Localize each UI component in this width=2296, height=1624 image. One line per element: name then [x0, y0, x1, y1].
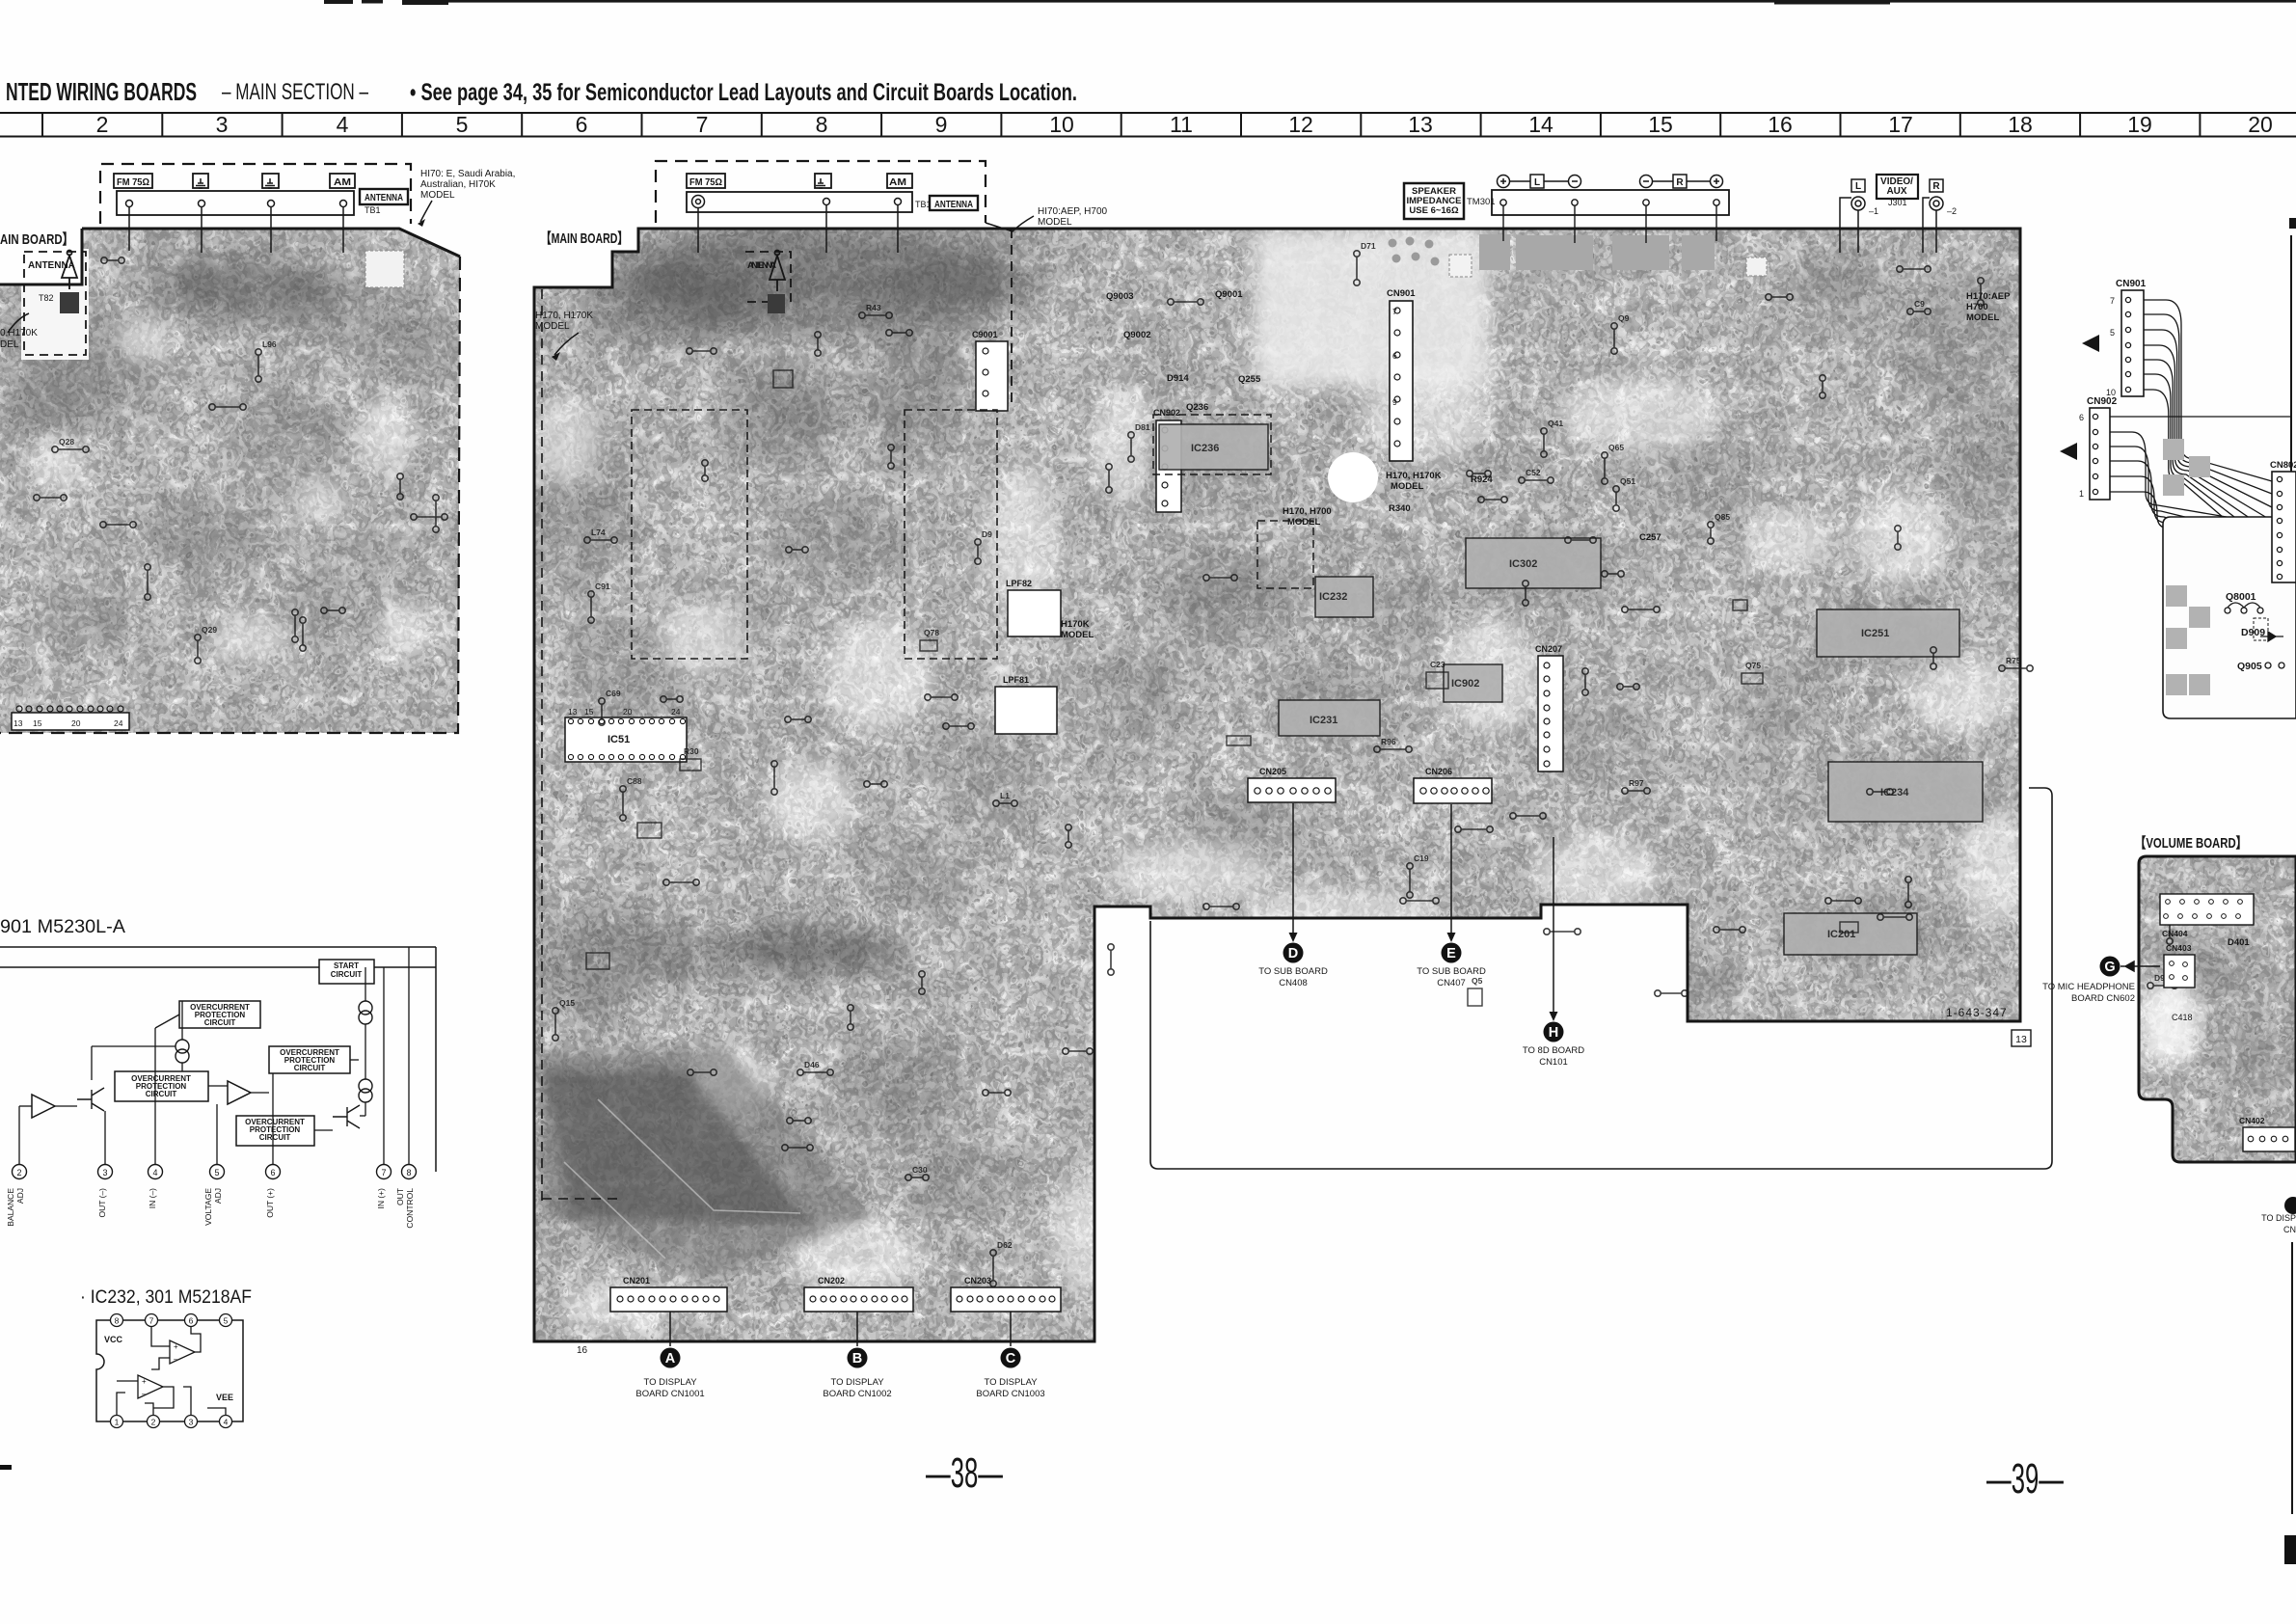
svg-text:C23: C23 [1430, 660, 1445, 669]
svg-text:+: + [174, 1342, 178, 1351]
svg-text:7: 7 [1392, 307, 1397, 316]
svg-text:3: 3 [102, 1168, 107, 1177]
svg-text:H170K: H170K [1061, 619, 1090, 630]
svg-text:BOARD CN1001: BOARD CN1001 [635, 1389, 704, 1399]
svg-text:Q5: Q5 [1472, 976, 1483, 986]
svg-text:BOARD CN1002: BOARD CN1002 [823, 1389, 891, 1399]
main board body [521, 222, 2035, 1350]
terminal strip TM301 [1492, 190, 1729, 215]
svg-text:Q8001: Q8001 [2226, 591, 2256, 603]
IC51 main board [565, 707, 687, 762]
svg-text:1-643-347: 1-643-347 [1946, 1006, 2008, 1019]
svg-text:Q28: Q28 [59, 437, 74, 447]
svg-text:D62: D62 [997, 1240, 1013, 1250]
svg-text:R97: R97 [1629, 778, 1644, 788]
connector CN901 (page right) [2106, 279, 2147, 397]
volume board small parts [2160, 894, 2254, 938]
IC251 [1817, 609, 1959, 657]
svg-text:L74: L74 [591, 528, 606, 537]
svg-text:CN408: CN408 [1279, 978, 1308, 988]
svg-text:7: 7 [696, 112, 709, 137]
svg-text:IC236: IC236 [1191, 443, 1219, 454]
svg-text:TO DISPLAY: TO DISPLAY [643, 1377, 697, 1388]
svg-text:15: 15 [33, 718, 42, 728]
svg-text:IC234: IC234 [1880, 787, 1909, 798]
svg-text:Q9002: Q9002 [1123, 330, 1151, 340]
svg-text:TO SUB BOARD: TO SUB BOARD [1417, 966, 1486, 977]
svg-text:CN403: CN403 [2166, 943, 2192, 953]
svg-text:DEL: DEL [0, 339, 19, 350]
svg-text:Q9: Q9 [1618, 313, 1630, 323]
main board outline [534, 229, 2020, 1341]
svg-text:6: 6 [189, 1316, 194, 1326]
left margin dash [0, 1465, 12, 1470]
svg-text:2: 2 [96, 112, 109, 137]
svg-text:IC251: IC251 [1861, 628, 1889, 639]
IC201 [1784, 913, 1917, 955]
svg-text:HI70:AEP, H700: HI70:AEP, H700 [1038, 206, 1108, 217]
svg-text:15: 15 [1648, 112, 1673, 137]
svg-text:8: 8 [406, 1168, 411, 1177]
svg-text:LPF81: LPF81 [1003, 675, 1029, 685]
arrow left 2 [2060, 443, 2077, 460]
svg-text:3: 3 [189, 1418, 194, 1427]
svg-text:19: 19 [2127, 112, 2152, 137]
diagram wiring [19, 947, 409, 1172]
svg-text:R43: R43 [866, 303, 881, 312]
svg-text:5: 5 [224, 1316, 229, 1326]
svg-text:MODEL: MODEL [1966, 312, 2000, 323]
svg-text:Q85: Q85 [1715, 512, 1730, 522]
svg-text:【MAIN BOARD】: 【MAIN BOARD】 [541, 230, 628, 247]
page marker 13 box [2012, 1030, 2031, 1046]
svg-text:Q65: Q65 [1608, 443, 1624, 452]
svg-text:R: R [1932, 181, 1940, 192]
svg-text:CIRCUIT: CIRCUIT [146, 1090, 177, 1098]
svg-text:C30: C30 [912, 1165, 928, 1175]
video aux connectors [1840, 175, 1943, 253]
svg-text:D401: D401 [2228, 937, 2250, 948]
svg-text:C9: C9 [1914, 299, 1925, 309]
svg-text:BALANCE: BALANCE [6, 1188, 15, 1227]
svg-text:CN207: CN207 [1535, 644, 1562, 654]
svg-text:MODEL: MODEL [420, 190, 455, 201]
IC302 [1466, 538, 1601, 588]
svg-text:FM 75Ω: FM 75Ω [689, 176, 722, 188]
svg-text:• See page 34, 35 for Semicond: • See page 34, 35 for Semiconductor Lead… [410, 79, 1077, 106]
connector CN203 [951, 1276, 1061, 1312]
svg-text:L1: L1 [1000, 791, 1010, 800]
svg-text:D: D [1288, 946, 1298, 961]
svg-text:Q51: Q51 [1620, 476, 1635, 486]
svg-text:IC51: IC51 [608, 734, 630, 745]
svg-text:6: 6 [576, 112, 588, 137]
svg-text:D46: D46 [804, 1060, 820, 1069]
svg-text:16: 16 [1768, 112, 1793, 137]
left board body [0, 222, 473, 743]
svg-text:H170, H700: H170, H700 [1283, 506, 1332, 517]
left board outline (top edge solid) [82, 229, 460, 257]
node C arrow + label [1010, 1312, 1012, 1346]
svg-text:–: – [174, 1355, 178, 1364]
svg-text:R75: R75 [2006, 656, 2021, 665]
thin white frame box right (Q8001 area) [2163, 517, 2296, 718]
FE2 dashed box [632, 410, 747, 659]
svg-text:–1: –1 [1869, 206, 1878, 216]
svg-text:AUX: AUX [1886, 186, 1906, 197]
svg-text:CIRCUIT: CIRCUIT [331, 970, 363, 979]
volume board body [2131, 849, 2296, 1167]
svg-text:D914: D914 [1167, 373, 1189, 384]
node G arrow + label [2100, 957, 2120, 977]
svg-text:NTED WIRING BOARDS: NTED WIRING BOARDS [6, 77, 197, 106]
svg-text:H170:AEP: H170:AEP [1966, 291, 2011, 302]
svg-text:OUT: OUT [395, 1188, 405, 1205]
svg-text:R96: R96 [1381, 737, 1396, 746]
svg-text:13: 13 [14, 718, 23, 728]
svg-text:ANTENNA: ANTENNA [934, 199, 973, 210]
connector CN205 [1248, 767, 1336, 802]
svg-text:BOARD CN1003: BOARD CN1003 [976, 1389, 1044, 1399]
svg-text:AIN BOARD】: AIN BOARD】 [0, 230, 73, 248]
svg-text:CN901: CN901 [1387, 288, 1416, 299]
svg-text:TB1: TB1 [915, 200, 932, 209]
arrow left 1 [2082, 335, 2099, 352]
IC236 [1159, 424, 1268, 470]
svg-text:Q41: Q41 [1548, 419, 1563, 428]
svg-text:17: 17 [1888, 112, 1913, 137]
svg-text:20: 20 [2248, 112, 2273, 137]
svg-text:C9001: C9001 [972, 330, 998, 339]
svg-text:12: 12 [1288, 112, 1313, 137]
svg-text:MODEL: MODEL [1287, 517, 1321, 528]
svg-text:T82: T82 [39, 293, 54, 303]
svg-text:CN206: CN206 [1425, 767, 1452, 776]
svg-text:MODEL: MODEL [1038, 217, 1072, 228]
connector CN902 (page right) [2079, 396, 2118, 500]
svg-text:C19: C19 [1414, 853, 1429, 863]
svg-text:7: 7 [2110, 296, 2115, 306]
svg-text:R924: R924 [1471, 474, 1493, 485]
svg-text:· IC232, 301 M5218AF: · IC232, 301 M5218AF [80, 1287, 252, 1308]
IC231 [1279, 700, 1380, 736]
svg-text:Q29: Q29 [202, 625, 217, 635]
svg-text:C91: C91 [595, 582, 610, 591]
svg-text:TO MIC HEADPHONE: TO MIC HEADPHONE [2042, 982, 2135, 992]
svg-text:CN201: CN201 [623, 1276, 650, 1286]
node D arrow + label [1292, 803, 1294, 939]
svg-text:7: 7 [149, 1316, 154, 1326]
svg-text:MODEL: MODEL [535, 321, 570, 332]
svg-text:0,H170K: 0,H170K [0, 328, 38, 338]
svg-text:A: A [665, 1351, 676, 1367]
IC232 [1315, 577, 1373, 617]
node A arrow + label [669, 1312, 671, 1346]
svg-text:TO 8D BOARD: TO 8D BOARD [1523, 1045, 1584, 1056]
svg-text:2: 2 [151, 1418, 156, 1427]
svg-text:9: 9 [935, 112, 948, 137]
svg-text:TO DISP: TO DISP [2261, 1213, 2296, 1223]
svg-text:OUT (+): OUT (+) [265, 1188, 275, 1218]
svg-text:18: 18 [2008, 112, 2033, 137]
svg-text:D9: D9 [982, 529, 992, 539]
svg-text:4: 4 [224, 1418, 229, 1427]
svg-text:ANTENNA: ANTENNA [365, 192, 403, 203]
svg-text:CIRCUIT: CIRCUIT [259, 1133, 291, 1142]
svg-text:3: 3 [216, 112, 229, 137]
dashed vertical inside main board [1011, 229, 1013, 405]
svg-text:MODEL: MODEL [1391, 481, 1424, 492]
svg-text:LPF82: LPF82 [1006, 579, 1032, 588]
svg-text:TB1: TB1 [365, 205, 381, 215]
svg-text:TO SUB BOARD: TO SUB BOARD [1258, 966, 1328, 977]
svg-text:CN101: CN101 [1539, 1057, 1568, 1068]
svg-text:8: 8 [115, 1316, 120, 1326]
ruler scale row [0, 113, 2296, 137]
svg-text:Q15: Q15 [559, 998, 575, 1008]
svg-text:CN902: CN902 [1153, 408, 1180, 418]
svg-text:6: 6 [1392, 351, 1397, 361]
svg-text:CONTROL: CONTROL [405, 1188, 415, 1229]
svg-text:H700: H700 [1966, 302, 1988, 312]
svg-text:G: G [2104, 960, 2115, 975]
op-amps [32, 1081, 251, 1118]
main antenna dashed box [656, 161, 986, 223]
svg-text:4: 4 [152, 1168, 157, 1177]
left antenna symbol box [24, 251, 86, 356]
svg-text:START: START [334, 961, 359, 970]
CN9001 [972, 330, 1008, 411]
svg-text:H170, H170K: H170, H170K [1386, 471, 1442, 481]
CN902 on board [1153, 408, 1181, 512]
right edge items [2284, 1197, 2296, 1214]
svg-text:MODEL: MODEL [1061, 630, 1094, 640]
svg-text:D71: D71 [1361, 241, 1376, 251]
IC901 block diagram [0, 947, 436, 1172]
HI70 E model note [420, 169, 515, 201]
svg-text:—38—: —38— [926, 1449, 1003, 1497]
svg-text:H170, H170K: H170, H170K [535, 311, 593, 321]
svg-text:【VOLUME BOARD】: 【VOLUME BOARD】 [2135, 834, 2247, 852]
svg-text:15: 15 [584, 707, 594, 717]
+L- -R+ row [1498, 175, 1723, 188]
svg-text:CN407: CN407 [1437, 978, 1466, 988]
svg-text:CIRCUIT: CIRCUIT [204, 1018, 236, 1027]
svg-text:2: 2 [16, 1168, 21, 1177]
svg-text:CN205: CN205 [1259, 767, 1286, 776]
LPF81 [995, 675, 1057, 734]
connector CN202 [804, 1276, 913, 1312]
svg-text:Australian, HI70K: Australian, HI70K [420, 179, 496, 190]
svg-text:+: + [142, 1377, 147, 1386]
svg-text:VEE: VEE [216, 1393, 233, 1402]
svg-text:R340: R340 [1389, 503, 1411, 514]
svg-text:11: 11 [1170, 112, 1193, 137]
svg-text:CIRCUIT: CIRCUIT [294, 1064, 326, 1072]
svg-text:C418: C418 [2172, 1013, 2193, 1022]
FE3 dashed box [905, 410, 997, 659]
svg-text:Q75: Q75 [1745, 661, 1761, 670]
svg-text:24: 24 [114, 718, 123, 728]
svg-text:24: 24 [671, 707, 681, 717]
header title [6, 77, 1077, 106]
svg-text:Q9001: Q9001 [1215, 289, 1243, 300]
svg-text:ADJ: ADJ [213, 1188, 223, 1204]
svg-text:ANTENNA: ANTENNA [28, 260, 75, 271]
svg-text:L96: L96 [262, 339, 277, 349]
svg-text:8: 8 [816, 112, 828, 137]
IC901 pins [13, 1165, 417, 1179]
svg-text:C69: C69 [606, 689, 621, 698]
svg-text:C257: C257 [1639, 532, 1661, 543]
svg-text:CN: CN [2283, 1225, 2296, 1234]
thin frame box lower right [1150, 788, 2052, 1169]
connector CN802 partial right edge [2270, 460, 2296, 582]
R254 dashed box [1257, 521, 1313, 588]
svg-text:20: 20 [71, 718, 81, 728]
IC232 pin diagram [96, 1320, 243, 1421]
svg-text:13: 13 [1408, 112, 1433, 137]
svg-text:USE 6~16Ω: USE 6~16Ω [1409, 205, 1459, 216]
svg-text:Q236: Q236 [1186, 402, 1208, 413]
svg-text:VOLTAGE: VOLTAGE [203, 1188, 213, 1226]
svg-text:5: 5 [456, 112, 469, 137]
node H arrow + label [1553, 837, 1554, 1018]
svg-text:E: E [1446, 946, 1456, 961]
svg-text:901 M5230L-A: 901 M5230L-A [0, 917, 125, 937]
svg-text:5: 5 [2110, 328, 2115, 338]
svg-text:BOARD CN602: BOARD CN602 [2071, 993, 2135, 1004]
svg-text:– MAIN SECTION –: – MAIN SECTION – [222, 79, 368, 105]
svg-text:IC902: IC902 [1451, 678, 1479, 690]
svg-text:VCC: VCC [104, 1335, 123, 1344]
top-right bracket artifact [2289, 218, 2296, 229]
svg-text:IC302: IC302 [1509, 558, 1537, 570]
svg-text:CN202: CN202 [818, 1276, 845, 1286]
dark copper pour region [540, 1046, 873, 1283]
scan artifact: top edge line [324, 0, 2296, 5]
svg-text:13: 13 [2015, 1034, 2027, 1045]
svg-text:C: C [1006, 1351, 1016, 1367]
left board dashed border [0, 257, 460, 733]
svg-text:D81: D81 [1135, 422, 1150, 432]
svg-text:FM 75Ω: FM 75Ω [117, 176, 149, 188]
HI70 AEP model note [1038, 206, 1108, 228]
svg-text:AM: AM [334, 176, 351, 188]
svg-text:–2: –2 [1947, 206, 1957, 216]
component marks [34, 241, 2177, 1286]
svg-text:IC231: IC231 [1310, 715, 1337, 726]
svg-text:CN404: CN404 [2162, 929, 2188, 938]
connector CN201 [610, 1276, 727, 1312]
svg-text:CN901: CN901 [2116, 279, 2147, 289]
svg-text:OUT (–): OUT (–) [97, 1188, 107, 1218]
svg-text:L: L [1534, 177, 1540, 188]
CN901 on board [1387, 288, 1416, 461]
left antenna dashed box [100, 164, 411, 224]
svg-text:1: 1 [115, 1418, 120, 1427]
LPF82 [1006, 579, 1061, 636]
svg-text:CN902: CN902 [2087, 396, 2118, 407]
CN207 on board [1535, 644, 1563, 771]
svg-text:Q905: Q905 [2237, 661, 2262, 672]
wires CN901 to lower right [2144, 300, 2272, 559]
svg-text:R30: R30 [684, 746, 699, 756]
transistors [77, 1088, 360, 1128]
svg-text:14: 14 [1528, 112, 1553, 137]
IC236 dashed box [1153, 415, 1271, 474]
svg-text:1: 1 [2079, 489, 2084, 499]
IC234 [1828, 762, 1983, 822]
svg-text:IN (–): IN (–) [148, 1188, 157, 1208]
svg-text:5: 5 [214, 1168, 219, 1177]
node E arrow + label [1450, 804, 1452, 939]
svg-text:CN402: CN402 [2239, 1116, 2265, 1125]
svg-text:Q255: Q255 [1238, 374, 1261, 385]
right page edge board line [2290, 235, 2292, 472]
svg-text:IN (+): IN (+) [376, 1188, 386, 1209]
svg-text:B: B [852, 1351, 862, 1367]
gray squares right column [2163, 439, 2210, 496]
svg-text:CN203: CN203 [964, 1276, 991, 1286]
svg-text:IC232: IC232 [1319, 591, 1347, 603]
main board antenna symbol [745, 251, 791, 303]
svg-text:13: 13 [568, 707, 578, 717]
svg-text:ADJ: ADJ [15, 1188, 25, 1204]
svg-text:TO DISPLAY: TO DISPLAY [984, 1377, 1038, 1388]
svg-text:AM: AM [889, 176, 906, 188]
svg-text:IC201: IC201 [1827, 929, 1855, 940]
current sources [176, 1001, 372, 1102]
svg-text:HI70: E, Saudi Arabia,: HI70: E, Saudi Arabia, [420, 169, 515, 179]
svg-text:L: L [1855, 181, 1861, 192]
main board captions [0, 230, 628, 248]
svg-text:ANTENNA: ANTENNA [747, 260, 776, 271]
svg-text:20: 20 [623, 707, 633, 717]
speaker impedance box [1404, 183, 1464, 219]
svg-text:6: 6 [270, 1168, 275, 1177]
svg-text:–: – [142, 1390, 147, 1398]
svg-text:TO DISPLAY: TO DISPLAY [830, 1377, 884, 1388]
svg-text:H: H [1549, 1025, 1558, 1041]
svg-text:Q9003: Q9003 [1106, 291, 1134, 302]
connector CN206 [1414, 767, 1492, 803]
svg-text:C88: C88 [627, 776, 642, 786]
svg-text:Q78: Q78 [924, 628, 939, 637]
svg-text:7: 7 [381, 1168, 386, 1177]
IC902 [1444, 664, 1502, 702]
svg-text:4: 4 [337, 112, 349, 137]
node B arrow + label [856, 1312, 858, 1346]
svg-text:R: R [1676, 177, 1684, 188]
svg-text:6: 6 [2079, 413, 2084, 422]
svg-text:9: 9 [1392, 397, 1397, 407]
svg-text:C52: C52 [1526, 468, 1541, 477]
svg-text:J301: J301 [1888, 198, 1907, 207]
svg-text:16: 16 [577, 1345, 588, 1356]
IC51 left board partial [12, 706, 129, 730]
svg-text:10: 10 [1049, 112, 1074, 137]
volume board outline [2139, 856, 2296, 1162]
svg-text:—39—: —39— [1986, 1455, 2064, 1502]
